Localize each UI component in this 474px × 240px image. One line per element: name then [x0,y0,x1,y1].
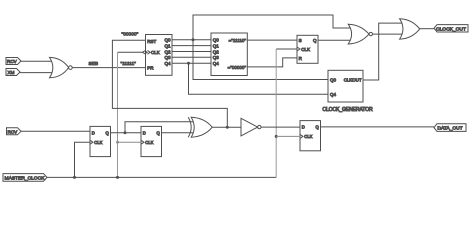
svg-text:="00000": ="00000" [228,65,247,70]
output port CLOCK_OUT [434,25,468,32]
svg-text:CLK: CLK [304,134,312,139]
xor-gate U10 [188,117,191,137]
input port XM [6,69,20,76]
wire sr clock riser (light) [275,49,277,177]
wire DFF1 Q to DFF2 D [111,132,142,134]
wire XOR out to inverter [212,126,241,128]
svg-text:Q2: Q2 [164,49,171,54]
svg-text:D: D [92,130,95,135]
svg-text:R: R [299,56,303,61]
node junction DFF3 CLK branch [275,135,278,138]
input port RCV (bottom) [7,128,22,135]
svg-text:DATA_OUT: DATA_OUT [437,126,462,132]
svg-text:XM: XM [8,70,15,75]
svg-text:CLK: CLK [145,140,153,145]
svg-text:D: D [302,125,305,130]
node Q0 junction [192,38,195,41]
node junction XOR output [226,126,229,129]
wire Q1 row [172,45,211,47]
wire SEB : NOR1 out to counter PR [72,67,145,69]
wire counter CLK from master clock riser [118,51,143,53]
svg-text:S: S [299,38,302,43]
svg-text:"11111": "11111" [121,61,137,67]
svg-text:Q3: Q3 [164,55,171,60]
wire OR3 out to CLOCK_OUT [420,28,434,30]
svg-text:CLOCK_GENERATOR: CLOCK_GENERATOR [322,107,373,113]
wire DFF2 Q to XOR bottom input [162,132,194,134]
node junction clock riser [116,176,119,179]
wire RCV to DFF1 D [21,130,90,132]
node junction DFF1 clk [73,176,76,179]
wire comparator =11110 to SR S input [247,39,297,41]
svg-text:"00000": "00000" [122,31,139,37]
svg-text:Q0: Q0 [164,38,171,43]
counter U2 [146,35,173,76]
wire inverter out to DFF3 D [261,126,300,128]
svg-text:RCV: RCV [8,130,19,135]
or-gate U6 [400,19,420,39]
inverter U11 [241,118,258,136]
wire branch to XOR top input [125,122,194,133]
wire NOR2 out to OR3 [373,33,403,35]
node junction DFF2 clk branch [116,141,119,144]
input port MASTER_CLOCK [3,174,47,182]
svg-text:Q0: Q0 [330,78,337,83]
wire XM to NOR1 [20,72,52,74]
wire RST feedback from XOR output [112,40,227,127]
output port DATA_OUT [434,124,466,132]
wire Q3 row [172,56,211,58]
svg-text:SEB: SEB [89,61,99,67]
wire DFF3 Q to DATA_OUT [321,126,435,128]
svg-text:CLK: CLK [94,140,102,145]
d-flipflop U9 [141,126,162,156]
wire riser to DFF3 CLK [276,135,300,137]
d-flipflop U8 [90,126,111,156]
svg-text:Q1: Q1 [164,44,171,49]
wire SR Q out to NOR2 [318,39,351,41]
wire branch to DFF1 CLK [75,142,91,177]
svg-text:Q2: Q2 [213,49,220,54]
svg-text:RST: RST [147,39,156,44]
wire CLKOUT riser to OR3 top input [363,23,402,80]
svg-text:Q1: Q1 [213,44,220,49]
svg-text:Q: Q [157,130,161,135]
svg-text:CLK: CLK [151,50,160,55]
wire Q0 row [172,39,211,41]
svg-text:Q4: Q4 [213,61,220,66]
svg-text:Q4: Q4 [164,61,171,66]
wire Q4 row [172,62,211,64]
svg-text:Q: Q [106,130,110,135]
svg-text:MASTER_CLOCK: MASTER_CLOCK [5,175,46,181]
wire Q2 row [172,51,211,53]
node junction on Q1 wire [124,131,127,134]
svg-text:="11110": ="11110" [229,38,247,43]
sr-flipflop U4 [297,35,318,63]
svg-text:Q0: Q0 [213,38,220,43]
svg-text:Q: Q [313,38,317,43]
svg-text:CLK: CLK [301,47,310,52]
node Q4 junction [187,62,190,65]
input port RCV (top) [6,58,21,65]
comparator U3 [211,33,247,76]
wire Q4 branch down to clock generator [189,63,329,94]
wire comparator =00000 to SR R input [247,58,297,67]
wire RCV to NOR1 [21,60,52,62]
d-flipflop U12 [300,121,321,151]
svg-text:PR: PR [147,66,154,71]
wire SR CLK riser from master clock [276,48,297,50]
wire master clock main run [47,176,276,178]
svg-text:Q4: Q4 [330,92,337,97]
svg-text:CLKOUT: CLKOUT [344,78,362,83]
svg-text:RCV: RCV [7,59,18,64]
svg-text:Q: Q [316,125,320,130]
wire clock riser (light) [117,52,119,177]
nor-gate U5 [348,24,369,44]
nor-gate U1 [50,57,69,77]
svg-text:D: D [143,130,146,135]
svg-text:CLOCK_OUT: CLOCK_OUT [436,26,466,32]
wire branch to DFF2 CLK [118,141,142,143]
clock generator block U7 [328,70,363,102]
svg-text:Q3: Q3 [213,55,220,60]
wire Q0 branch: up to top run into NOR2, down to clock generator [193,15,351,80]
